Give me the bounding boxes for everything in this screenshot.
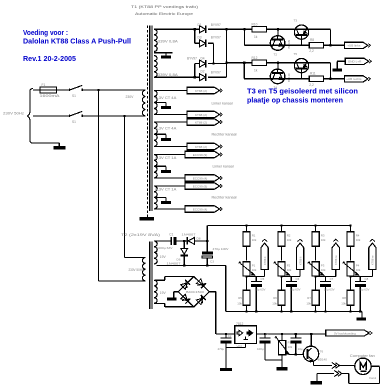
svg-text:1k: 1k — [254, 35, 258, 39]
connector bias output (up) KT88 re — [332, 243, 339, 270]
motor M1 computer fan — [355, 358, 371, 374]
transformer T1 heater winding 6,3V CT 4A (#1) — [154, 91, 157, 115]
svg-text:T2 (2x19V 8VA): T2 (2x19V 8VA) — [121, 233, 160, 237]
wire — [245, 28, 252, 30]
svg-text:0V hoofdvoeding: 0V hoofdvoeding — [334, 331, 356, 335]
wire: +HV rail vertical — [226, 29, 228, 77]
wire: bridge plus output — [209, 291, 216, 293]
wire — [350, 305, 352, 311]
node: +HV tap to regulator row2 — [226, 62, 228, 64]
svg-text:KT88 li: KT88 li — [298, 256, 302, 265]
fan plug contact (wire 1) — [332, 362, 336, 368]
svg-text:P3: P3 — [321, 263, 325, 267]
svg-text:R5: R5 — [238, 296, 242, 300]
wire: heater top terminal — [155, 154, 185, 156]
svg-text:Computer fan: Computer fan — [350, 354, 375, 358]
svg-text:R6: R6 — [273, 296, 277, 300]
wire: corner down — [330, 29, 332, 45]
svg-text:19V: 19V — [160, 291, 167, 295]
switch S1a — [69, 88, 71, 91]
node: row2 input split — [243, 62, 245, 64]
wire — [281, 246, 283, 260]
wire: 0V rail (19V upper bottom terminal) — [157, 265, 226, 267]
mains inlet brace 230V 50Hz — [28, 89, 33, 143]
resistor R3 10k — [312, 232, 319, 246]
svg-text:6,3V CT 4A: 6,3V CT 4A — [155, 96, 177, 100]
connector ECC99 (4) — [185, 175, 220, 181]
node: T4 base tap — [277, 62, 279, 64]
transistor T2 — [270, 36, 285, 51]
potentiometer P3 10k — [312, 262, 319, 276]
svg-text:10k: 10k — [341, 301, 346, 305]
voltage regulator VR1 7812 — [235, 326, 257, 344]
svg-text:+UB links: +UB links — [347, 44, 361, 48]
wire: heater CT — [154, 102, 166, 104]
wire: S1b to T1 primary (row2 y116) — [82, 115, 145, 117]
ground: fan speed network — [277, 367, 288, 370]
node: C1/D8/D6 junction — [183, 240, 185, 242]
capacitor C6 10u 63V — [290, 277, 292, 282]
wire: D4 anode down to HV bottom row — [194, 64, 196, 78]
transformer T1 electrostatic shield (dashed) — [146, 26, 148, 217]
wire: to output connector / cap — [316, 276, 336, 278]
wire: connector stem — [299, 270, 301, 277]
wire — [246, 305, 248, 311]
svg-text:339V 0,8A: 339V 0,8A — [158, 73, 179, 77]
node: junction row1 / drop to T2 primary — [98, 89, 100, 91]
node: row1 input split — [244, 28, 246, 30]
switch S1b — [69, 114, 71, 117]
svg-text:T3 en T5 geisoleerd met silico: T3 en T5 geisoleerd met silicon — [247, 87, 358, 96]
wire: to bridge top corner — [165, 276, 194, 278]
wire: to D3 anode — [194, 29, 196, 43]
wire: T5 base stem — [301, 73, 303, 79]
resistor R7 10k — [312, 290, 319, 305]
wire: lower rail through T4 to R11 — [244, 78, 309, 80]
wire: return to plug — [342, 373, 349, 375]
ground: heater CT — [161, 106, 171, 109]
wire: lower rail through T2 to R8 — [245, 44, 310, 46]
wire: HV center tap — [154, 52, 173, 54]
svg-text:470µ 100V: 470µ 100V — [213, 247, 230, 251]
ground: C2 / 7812 — [220, 368, 232, 371]
transformer T1 heater winding 6,3V CT 1A (#4) — [154, 186, 157, 209]
svg-text:S1: S1 — [72, 94, 76, 98]
svg-text:Automatic Electric Europe: Automatic Electric Europe — [135, 11, 193, 16]
svg-text:R1: R1 — [252, 233, 256, 237]
wire: heater bottom terminal — [155, 114, 187, 116]
svg-text:ECC99 (9): ECC99 (9) — [193, 184, 208, 188]
capacitor C2 470u — [225, 334, 227, 338]
svg-text:KT88 re: KT88 re — [371, 255, 375, 265]
ground: fan return — [311, 381, 323, 385]
wire: D3 cathode down to D4 row — [213, 43, 215, 63]
wire: heater top terminal — [155, 90, 187, 92]
transformer T1 heater winding 6,3V CT 1A (#3) — [154, 155, 157, 179]
wire — [350, 246, 352, 260]
wire: vertical mains drop to T2 primary top — [123, 116, 125, 258]
wire: to output connector / cap — [351, 276, 373, 278]
node: C2 tap — [225, 333, 227, 335]
wire: return bottom — [349, 382, 380, 384]
svg-text:BYV97: BYV97 — [211, 23, 221, 27]
diode D3 BYV97 — [200, 40, 206, 47]
svg-text:T2: T2 — [274, 52, 278, 56]
resistor R8 — [309, 43, 323, 48]
wire: T6 emitter — [312, 361, 314, 366]
node: T2 base tap — [277, 28, 279, 30]
svg-text:Linker kanaal: Linker kanaal — [212, 102, 233, 106]
transistor T6 (fan driver) — [303, 346, 318, 361]
wire: emitter to fan plug — [313, 365, 331, 367]
wire: -100V up to bias rail — [206, 225, 208, 241]
wire: T6 collector to +12V — [310, 334, 312, 346]
svg-text:1000µ 63V: 1000µ 63V — [157, 246, 174, 250]
wire: stem to ground — [361, 312, 363, 318]
svg-text:100µ: 100µ — [257, 347, 264, 351]
ground: mains earth — [54, 146, 66, 149]
transformer T2 secondary winding 19V (lower) — [154, 280, 157, 303]
wire: HV bottom terminal to D2 anode — [154, 76, 200, 78]
wire: pot bottom to Rlower — [246, 276, 248, 290]
wire: +HV to regulator row2 — [227, 62, 245, 64]
node: R3 top on -100V rail — [315, 224, 317, 226]
bridge arm top-right — [194, 277, 210, 292]
wire: inlet earth — [33, 142, 59, 144]
svg-text:10k: 10k — [252, 268, 257, 272]
ground: HV center tap — [161, 55, 171, 58]
svg-text:7812: 7812 — [236, 322, 244, 326]
capacitor C3 470u 100V — [206, 241, 208, 251]
svg-text:10k: 10k — [306, 301, 311, 305]
wire: row1 drop to lower rail — [244, 29, 246, 45]
svg-text:ECC99 (4): ECC99 (4) — [193, 176, 208, 180]
bridge diode (top-left) — [180, 279, 190, 289]
svg-text:Rev.1 20-2-2005: Rev.1 20-2-2005 — [23, 56, 76, 63]
wire: inlet L to fuse F1 — [33, 89, 40, 91]
resistor R4 10k — [347, 232, 354, 246]
svg-text:plaatje op chassis monteren: plaatje op chassis monteren — [247, 96, 343, 105]
svg-text:6,3V CT 1A: 6,3V CT 1A — [155, 188, 177, 192]
connector KT88 (2) — [187, 111, 220, 117]
connector bias output (up) KT88 li — [261, 243, 268, 270]
svg-text:D1: D1 — [198, 23, 202, 27]
svg-text:Dalolan KT88 Class A Push-Pull: Dalolan KT88 Class A Push-Pull — [23, 39, 131, 46]
capacitor C7 10u 63V — [324, 277, 326, 282]
wire: heater CT — [154, 165, 166, 167]
wire: to T2 primary bottom terminal — [99, 280, 146, 282]
svg-text:BYV97: BYV97 — [211, 36, 221, 40]
svg-text:T3: T3 — [294, 19, 298, 23]
resistor R5 10k — [243, 290, 250, 305]
node: bias output — [245, 276, 247, 278]
svg-text:10k: 10k — [321, 238, 326, 242]
svg-text:C6: C6 — [296, 277, 300, 281]
wire: corner down — [330, 63, 332, 79]
svg-text:C3: C3 — [210, 259, 214, 263]
svg-text:19V: 19V — [160, 255, 167, 259]
svg-text:R11: R11 — [310, 72, 316, 76]
svg-text:R12: R12 — [252, 56, 258, 60]
transformer T1 heater winding 6,3V CT 4A (#2) — [154, 122, 157, 147]
node: output junction row1 — [330, 44, 332, 46]
svg-text:P2: P2 — [287, 263, 291, 267]
svg-text:6,3V CT 1A: 6,3V CT 1A — [155, 156, 177, 160]
svg-text:Linker kanaal: Linker kanaal — [213, 165, 234, 169]
wire: D4 cathode row — [208, 63, 227, 65]
wire: GND stem — [336, 61, 338, 68]
wire: D3 cathode — [208, 42, 214, 44]
wire: HV top terminal to D1 anode — [154, 28, 200, 30]
connector +UB rechts — [345, 76, 368, 82]
transistor T3 — [294, 25, 308, 39]
bridge diode (bottom-left) — [180, 294, 190, 304]
svg-text:D4: D4 — [201, 56, 205, 60]
wire: heater bottom terminal — [155, 208, 185, 210]
svg-text:BD139: BD139 — [287, 73, 291, 82]
wire: pot bottom to ground — [281, 355, 283, 367]
svg-text:KT88 (2): KT88 (2) — [195, 120, 207, 124]
svg-text:6,3V CT 4A: 6,3V CT 4A — [155, 127, 177, 131]
wire: R10 to T3 collector run — [266, 28, 330, 30]
capacitor C8 10u 63V — [359, 277, 361, 282]
wire: R8 to +UB links connector — [323, 44, 344, 46]
bridge arm bottom-left — [178, 292, 194, 307]
svg-text:+UB rechts: +UB rechts — [346, 77, 362, 81]
wire: F1 to switch S1a — [57, 89, 70, 91]
node: junction row2 / drop to T2 primary — [123, 115, 125, 117]
node: output junction row2 — [330, 78, 332, 80]
svg-text:R10: R10 — [252, 22, 258, 26]
connector KT88 (2) — [187, 143, 220, 149]
svg-text:10µ 63V: 10µ 63V — [255, 288, 266, 292]
resistor R12 — [252, 60, 266, 65]
svg-text:Rechter kanaal: Rechter kanaal — [212, 196, 237, 200]
wire — [246, 246, 248, 260]
svg-text:10k: 10k — [321, 268, 326, 272]
svg-text:S1: S1 — [72, 120, 76, 124]
wire: fan motor return — [371, 365, 379, 367]
wire: heater top terminal — [155, 185, 185, 187]
svg-text:P1: P1 — [252, 263, 256, 267]
connector 0V hoofdvoeding — [326, 330, 370, 336]
svg-text:10k: 10k — [356, 238, 361, 242]
svg-text:10k: 10k — [272, 301, 277, 305]
resistor R1 10k — [243, 232, 250, 246]
ground: T1 shield to chassis — [139, 217, 154, 221]
connector bias output (up) KT88 re — [369, 243, 376, 270]
wire: pot bottom to Rlower — [281, 276, 283, 290]
potentiometer P1 10k — [243, 262, 250, 276]
connector GND L+R — [345, 58, 368, 64]
ground: heater CT — [161, 138, 171, 141]
diode D1 BYV97 — [200, 26, 206, 33]
connector bias output (up) KT88 li — [296, 243, 303, 270]
svg-text:C8: C8 — [365, 277, 369, 281]
wire — [315, 305, 317, 311]
transformer T1 core — [149, 26, 151, 212]
diode D4 BYV97 — [200, 60, 206, 67]
svg-text:ECC99 (4): ECC99 (4) — [193, 207, 208, 211]
diode D2 BYV97 — [200, 74, 206, 81]
wire: R11 to +UB rechts connector — [323, 78, 344, 80]
svg-text:10k: 10k — [287, 238, 292, 242]
wire: D8 anode to -100V node — [195, 240, 208, 242]
resistor R8 10k — [347, 290, 354, 305]
fan plug contact (wire 2) — [334, 370, 338, 376]
node: +HV rail junction — [226, 28, 228, 30]
transformer T1 HV secondary winding 339V 0,8A (upper) — [154, 29, 157, 51]
potentiometer P2 10k — [278, 262, 285, 276]
transformer T2 core — [149, 242, 151, 310]
wire: S1a to T1 primary (row1 y90) — [82, 89, 145, 91]
svg-text:10µ 63V: 10µ 63V — [359, 288, 370, 292]
svg-text:C2: C2 — [228, 334, 232, 338]
wire: heater CT — [154, 133, 166, 135]
wire: T3 base stem — [301, 39, 303, 45]
wire: to bridge bottom corner — [165, 306, 194, 308]
wire: heater bottom terminal — [155, 146, 187, 148]
transistor T4 — [270, 69, 285, 84]
wire: plug to fan motor — [339, 365, 355, 367]
svg-text:10µ 63V: 10µ 63V — [290, 288, 301, 292]
wire: +19V down to 7812 row — [215, 292, 217, 334]
bridge arm top-left — [178, 277, 194, 292]
wire: return to ground — [317, 373, 334, 375]
node: D1/D3 anode junction — [194, 28, 196, 30]
svg-text:10k: 10k — [356, 268, 361, 272]
fuse F1 1600mA — [40, 89, 57, 91]
resistor R10 — [252, 27, 266, 32]
resistor R2 10k — [278, 232, 285, 246]
capacitor C5 10u 63V — [255, 277, 257, 282]
wire: -100V bias rail — [207, 224, 350, 226]
wire — [281, 305, 283, 311]
wire: 19V lower top terminal — [155, 279, 165, 281]
node: pot top tap — [281, 333, 283, 335]
wire: +12V rail — [256, 333, 325, 335]
svg-text:10µ: 10µ — [298, 347, 303, 351]
resistor R11 — [309, 76, 323, 81]
transformer T2 primary winding 230V — [142, 258, 145, 282]
wire: down to T2 — [277, 29, 279, 35]
svg-text:ECC99 (9): ECC99 (9) — [193, 153, 208, 157]
wire: 19V upper top to C1 — [155, 240, 171, 242]
svg-text:BYV97: BYV97 — [211, 71, 221, 75]
wire: vertical mains drop to T2 primary bottom — [98, 90, 100, 281]
svg-text:10k: 10k — [288, 345, 293, 349]
wire: pot bottom to Rlower — [315, 276, 317, 290]
node: C6 tap — [295, 333, 297, 335]
svg-text:R7: R7 — [307, 296, 311, 300]
svg-text:C4: C4 — [265, 332, 269, 336]
wire: connector stem — [264, 270, 266, 277]
svg-text:C7: C7 — [330, 277, 334, 281]
svg-text:KT88 (2): KT88 (2) — [195, 145, 207, 149]
diode D6 1N4007 (to 0V) — [183, 241, 185, 248]
connector ECC99 (9) — [185, 183, 220, 189]
transistor T5 — [294, 59, 308, 73]
wire: down to T4 — [277, 63, 279, 69]
bridge diode (bottom-right) — [196, 295, 206, 305]
svg-text:Fan1: Fan1 — [369, 376, 376, 380]
svg-text:1N4007: 1N4007 — [182, 232, 196, 236]
svg-text:KT88 (2): KT88 (2) — [195, 113, 207, 117]
transformer T2 secondary winding 19V (upper) — [154, 241, 157, 264]
svg-text:T1 (KT88 PP voedings trafo): T1 (KT88 PP voedings trafo) — [131, 4, 199, 9]
svg-text:KT88 re: KT88 re — [334, 255, 338, 265]
svg-text:P4: P4 — [356, 263, 360, 267]
svg-text:470µ: 470µ — [218, 347, 225, 351]
wire: C4 bottom to pot ground stem — [265, 359, 282, 361]
svg-text:339V 0,8A: 339V 0,8A — [158, 39, 179, 43]
ground: heater CT — [161, 201, 171, 204]
svg-text:R4: R4 — [356, 233, 360, 237]
connector +UB links — [345, 42, 368, 48]
svg-text:R8: R8 — [342, 296, 346, 300]
node: R1 top on -100V rail — [245, 224, 247, 226]
svg-text:R3: R3 — [321, 233, 325, 237]
svg-text:2,2: 2,2 — [309, 49, 314, 53]
wire: D2 cathode to +HV rail — [208, 76, 227, 78]
wire: GND connector — [337, 60, 345, 62]
svg-text:230V 50Hz: 230V 50Hz — [3, 112, 24, 116]
svg-text:1k: 1k — [254, 68, 258, 72]
node: bias output — [349, 276, 351, 278]
svg-text:D8: D8 — [197, 237, 201, 241]
resistor R6 10k — [278, 290, 285, 305]
svg-text:T5: T5 — [294, 52, 298, 56]
wire: to output connector / cap — [247, 276, 265, 278]
wire: C1 to D8 — [177, 240, 189, 242]
svg-text:D2: D2 — [201, 70, 205, 74]
wire: bias 0V bottom rail — [226, 311, 362, 313]
capacitor C1 1000u 63V — [170, 237, 172, 245]
transformer T1 primary winding 230V — [142, 90, 145, 116]
wire: row2 drop to lower rail — [243, 63, 245, 79]
wire: to output connector / cap — [282, 276, 301, 278]
svg-text:10k: 10k — [252, 238, 257, 242]
wire — [315, 246, 317, 260]
wire: heater CT — [154, 197, 166, 199]
transformer T1 HV secondary winding 339V 0,8A (lower) — [154, 56, 157, 78]
ground: bridge minus — [167, 297, 177, 300]
svg-text:230V: 230V — [126, 95, 135, 99]
potentiometer P4 10k — [347, 262, 354, 276]
svg-text:R8: R8 — [310, 38, 314, 42]
wire: base wire to T6 — [289, 354, 304, 356]
wire: heater bottom terminal — [155, 177, 185, 179]
wire: to T2 primary top terminal — [124, 257, 145, 259]
svg-text:10k: 10k — [287, 268, 292, 272]
node: bias output — [315, 276, 317, 278]
svg-text:KT88 li: KT88 li — [263, 256, 267, 265]
connector KT88 (2) — [187, 119, 220, 125]
svg-text:10k: 10k — [237, 301, 242, 305]
svg-text:C5: C5 — [261, 277, 265, 281]
wire: to 7812 input — [216, 333, 235, 335]
svg-text:1600mA: 1600mA — [40, 94, 61, 98]
svg-text:R2: R2 — [287, 233, 291, 237]
wire: 7812 gnd to C2 stem — [226, 347, 246, 349]
svg-text:10µ 63V: 10µ 63V — [324, 288, 335, 292]
ground: bias supply 0V — [357, 317, 367, 320]
bridge diode (top-right) — [196, 278, 206, 288]
wire: 0V rail down right side — [225, 266, 227, 312]
wire: 7812 gnd pin — [245, 343, 247, 347]
wire: connector stem — [335, 270, 337, 277]
svg-text:T6: T6 — [320, 350, 324, 354]
